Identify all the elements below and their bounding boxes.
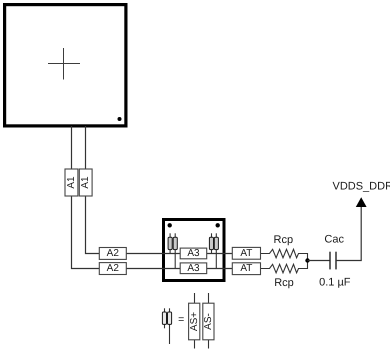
svg-text:Cac: Cac <box>324 234 344 246</box>
segment box A1 right <box>79 169 92 196</box>
label Rcp upper <box>274 234 294 246</box>
wire upper net A3 to AT <box>206 253 233 255</box>
wire vertical left from pad to A1 <box>71 126 73 170</box>
svg-text:Rcp: Rcp <box>274 277 294 289</box>
svg-text:A3: A3 <box>187 248 200 259</box>
ball dot right in package <box>216 223 220 227</box>
legend box AS+ <box>189 303 200 340</box>
segment box AT lower <box>232 263 260 275</box>
via AS pair left bodies <box>168 237 177 249</box>
BGA package pad square <box>5 5 126 126</box>
svg-text:AT: AT <box>240 248 252 259</box>
capacitor Cac plates <box>330 252 336 270</box>
legend wire stubs AS+ <box>194 293 196 349</box>
segment box AT upper <box>232 247 260 259</box>
via stub wires right pair <box>212 233 217 268</box>
segment box A3 upper <box>180 248 207 259</box>
svg-text:Rcp: Rcp <box>274 234 294 246</box>
via stub wires left pair <box>170 233 175 268</box>
wire capacitor to riser <box>336 207 361 261</box>
svg-text:A3: A3 <box>187 263 200 274</box>
pin-1 ball dot <box>118 117 122 121</box>
resistor Rcp lower zigzag <box>261 261 308 273</box>
resistor Rcp upper zigzag <box>261 249 308 260</box>
label Rcp lower <box>274 277 294 289</box>
svg-text:A2: A2 <box>107 263 120 274</box>
svg-text:A1: A1 <box>66 176 77 189</box>
svg-text:A1: A1 <box>80 176 91 189</box>
wire vertical right from pad to A1 <box>85 126 87 170</box>
inner package box <box>164 220 225 281</box>
pad center cross <box>48 48 80 80</box>
wire right vertical below A1 with corner to upper net <box>86 195 101 254</box>
junction node dot <box>305 258 309 262</box>
label Cac <box>324 234 344 246</box>
via AS pair right bodies <box>209 237 218 249</box>
ball dot left in package <box>168 223 172 227</box>
wire lower net A3 to AT <box>206 268 233 270</box>
segment box A1 left <box>65 169 78 196</box>
legend equals sign <box>178 314 184 326</box>
label VDDS_DDR <box>333 180 390 192</box>
wire lower net A2 to A3 <box>126 268 181 270</box>
legend via pair bodies <box>162 312 171 324</box>
segment box A3 lower <box>180 263 207 274</box>
segment box A2 upper <box>99 248 126 260</box>
wire left vertical below A1 with corner to lower net <box>72 195 101 269</box>
label 0.1 uF <box>319 277 351 289</box>
legend via stub wires <box>165 308 170 344</box>
power arrow VDDS_DDR <box>356 197 367 207</box>
wire junction to capacitor <box>308 260 331 262</box>
svg-text:AS-: AS- <box>203 313 214 330</box>
wire upper net A2 to A3 <box>126 253 181 255</box>
svg-text:0.1 µF: 0.1 µF <box>319 277 351 289</box>
segment box A2 lower <box>99 263 126 275</box>
svg-text:VDDS_DDR: VDDS_DDR <box>333 180 390 192</box>
svg-text:AS+: AS+ <box>189 312 200 331</box>
svg-text:A2: A2 <box>107 248 120 259</box>
legend box AS- <box>203 303 214 340</box>
svg-text:=: = <box>178 314 184 326</box>
legend wire stubs AS- <box>208 293 210 349</box>
svg-text:AT: AT <box>240 263 252 274</box>
